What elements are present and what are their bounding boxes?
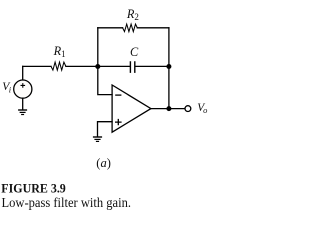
wire op-amp output [151,108,185,110]
wire capacitor to node B [135,65,169,67]
ground (op-amp noninverting) [93,137,102,141]
wire R1 row left segment [23,65,51,67]
op-amp minus sign [115,94,121,96]
op-amp U1 triangle [112,85,151,132]
svg-text:R2: R2 [126,7,139,22]
svg-text:Vi: Vi [2,80,11,95]
plus sign inside source [21,83,26,88]
svg-text:FIGURE 3.9: FIGURE 3.9 [1,182,66,196]
svg-text:Vo: Vo [197,102,207,115]
output terminal open circle [185,106,191,112]
wire R2 row right segment [137,27,169,29]
svg-text:Low-pass filter with gain.: Low-pass filter with gain. [2,196,132,211]
node A junction dot [95,64,100,69]
wire source top: corner down to Vi source [22,66,24,80]
wire node A to capacitor [66,65,130,67]
wire left vertical node A up to R2 row [97,28,99,67]
wire R2 row left segment [98,27,123,29]
op-amp plus sign [115,119,122,125]
capacitor C [130,62,134,72]
wire noninverting input to ground [98,122,113,137]
resistor R2 [123,24,138,32]
svg-text:C: C [130,45,139,59]
wire right vertical R2 row down to output node [168,28,170,109]
output node junction dot [166,106,171,111]
node B junction dot [166,64,171,69]
wire Vi source bottom to ground [22,98,24,109]
svg-text:R1: R1 [53,44,66,59]
voltage source Vi circle [14,80,32,98]
svg-text:(a): (a) [96,156,111,170]
resistor R1 [51,62,66,70]
ground (source) [18,110,27,115]
wire node A down to inverting input [98,66,112,94]
